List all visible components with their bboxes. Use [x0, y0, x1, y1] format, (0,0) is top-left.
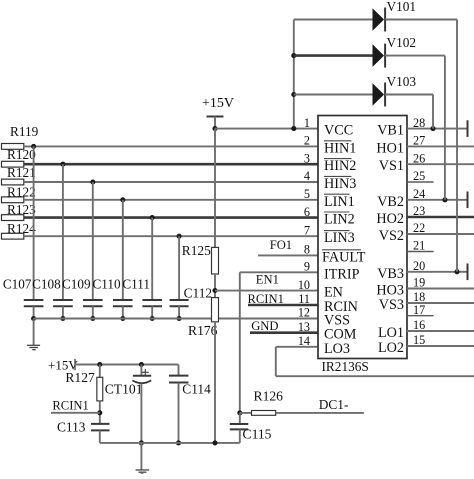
svg-text:6: 6	[304, 205, 310, 219]
wire COM pin 13 stub	[250, 331, 318, 334]
wire +15V rail	[75, 364, 179, 366]
svg-text:C108: C108	[32, 277, 61, 292]
wire +15V column to R125	[214, 129, 216, 248]
svg-text:R122: R122	[7, 184, 36, 199]
svg-text:R125: R125	[182, 243, 211, 258]
svg-text:11: 11	[298, 292, 310, 306]
pin number 8	[304, 243, 310, 257]
node pin 28 junction	[430, 126, 435, 131]
pin name LIN1	[324, 194, 355, 210]
pin name LIN2	[324, 212, 355, 228]
resistor R125	[182, 243, 219, 274]
pin number 3	[304, 151, 310, 165]
node R127 top junction	[97, 362, 102, 367]
pin number 12	[298, 306, 310, 320]
node V102 anode junction	[291, 53, 296, 58]
svg-text:R123: R123	[7, 202, 36, 217]
wire VCC diode bus	[291, 20, 296, 132]
wire drop to C107	[33, 146, 35, 300]
svg-text:5: 5	[304, 187, 310, 201]
svg-text:4: 4	[304, 169, 310, 183]
pin number 13	[298, 320, 310, 334]
pin number 26	[413, 151, 425, 165]
capacitor C111	[122, 277, 162, 307]
svg-text:C114: C114	[182, 382, 211, 397]
svg-text:17: 17	[413, 303, 425, 317]
svg-text:HO1: HO1	[376, 140, 404, 156]
pin name FAULT	[322, 249, 366, 265]
wire drop to C110	[122, 200, 124, 300]
node junction on input line at C108	[60, 162, 65, 167]
wire EN node to EN pin 10	[215, 290, 318, 292]
wire pin 28	[407, 128, 468, 130]
pin name ITRIP	[324, 266, 360, 282]
wire ITRIP to R126	[240, 412, 252, 414]
wire pin 24	[407, 199, 468, 201]
svg-text:FO1: FO1	[270, 238, 292, 252]
svg-text:FAULT: FAULT	[322, 249, 366, 265]
pin number 19	[413, 276, 425, 290]
wire C111 to bus	[150, 306, 155, 321]
wire pin 16	[407, 330, 474, 332]
node CT101 top junction	[139, 362, 144, 367]
capacitor C114	[169, 376, 211, 397]
pin number 24	[413, 187, 425, 201]
wire pin 23	[407, 216, 474, 219]
svg-text:R121: R121	[7, 165, 36, 180]
pin name LO1	[378, 325, 404, 341]
wire C109 to bus	[90, 306, 95, 321]
net label GND	[251, 319, 278, 333]
svg-text:C113: C113	[57, 419, 86, 434]
svg-text:C111: C111	[122, 277, 150, 292]
pin name HO2	[376, 211, 404, 227]
svg-text:V101: V101	[387, 0, 417, 14]
svg-text:+15V: +15V	[202, 96, 234, 111]
wire pin 15	[407, 345, 474, 347]
pin number 21	[413, 239, 425, 253]
svg-text:DC1-: DC1-	[319, 397, 349, 412]
diode V101	[294, 0, 457, 272]
svg-text:R119: R119	[10, 124, 39, 139]
wire drop to C109	[92, 182, 94, 300]
wire C108 to bus	[60, 306, 65, 321]
resistor R127	[65, 365, 102, 401]
wire R127 to RCIN1 node	[97, 401, 102, 424]
pin number 20	[413, 259, 425, 273]
resistor R120	[2, 147, 37, 167]
pin number 11	[298, 292, 310, 306]
wire FAULT pin 8 stub	[258, 254, 318, 256]
diode V103	[294, 74, 433, 129]
pin name LIN3	[324, 230, 355, 246]
wire R124 to pin 7	[24, 235, 318, 237]
wire pin 25 stub	[407, 181, 434, 183]
svg-text:C107: C107	[3, 277, 32, 292]
node junction on input line at C109	[90, 179, 95, 184]
wire pin 20	[407, 271, 468, 273]
pin number 5	[304, 187, 310, 201]
svg-text:9: 9	[304, 260, 310, 274]
svg-text:HO2: HO2	[376, 211, 404, 227]
svg-text:EN1: EN1	[256, 273, 279, 287]
pin name VS1	[379, 158, 404, 174]
capacitor C115	[230, 413, 272, 442]
wire +15V to VCC pin 1	[215, 128, 318, 130]
resistor R126	[252, 389, 284, 416]
wire ground bus to VSS pin 12	[34, 318, 318, 320]
svg-text:C112: C112	[184, 286, 213, 301]
net label RCIN1 (pin 11)	[248, 292, 284, 306]
pin name VS3	[379, 297, 404, 313]
pin number 4	[304, 169, 310, 183]
svg-text:LIN2: LIN2	[324, 212, 355, 228]
pin name VS2	[379, 228, 404, 244]
resistor R122	[2, 184, 36, 202]
wire bottom ground bus	[100, 440, 240, 445]
svg-text:R126: R126	[254, 389, 284, 404]
svg-text:10: 10	[298, 278, 310, 292]
pin number 14	[298, 334, 310, 348]
capacitor C112	[170, 286, 213, 307]
svg-text:HIN3: HIN3	[324, 176, 356, 192]
terminal pin 20	[467, 264, 469, 281]
wire rail corner to C114	[178, 365, 180, 376]
svg-text:8: 8	[304, 243, 310, 257]
pin name VSS	[324, 313, 350, 329]
wire pin 18	[407, 302, 474, 304]
capacitor CT101	[105, 365, 151, 397]
wire pin 26	[407, 163, 474, 165]
node V103 anode junction	[291, 92, 296, 97]
power +15V (top)	[202, 96, 234, 129]
wire drop to C108	[62, 164, 64, 300]
node junction on input line at C111	[150, 215, 155, 220]
svg-text:V103: V103	[387, 74, 417, 89]
wire drop to C111	[151, 218, 153, 300]
capacitor C107	[3, 277, 44, 307]
node ITRIP junction	[237, 410, 242, 415]
pin name VB1	[377, 123, 404, 139]
wire CT101 to bottom bus	[139, 384, 144, 446]
svg-text:V102: V102	[387, 35, 417, 50]
capacitor C109	[62, 277, 103, 307]
svg-text:LIN1: LIN1	[324, 194, 355, 210]
wire R123 to pin 6	[24, 216, 318, 219]
node pin 24 junction	[442, 197, 447, 202]
wire R125 to EN node	[214, 274, 216, 298]
svg-text:C115: C115	[243, 427, 272, 442]
pin number 15	[413, 333, 425, 347]
pin number 22	[413, 221, 425, 235]
pin number 7	[304, 223, 310, 237]
pin name HIN1	[324, 140, 356, 156]
pin number 27	[413, 134, 425, 148]
resistor R176	[188, 298, 219, 338]
svg-text:LO2: LO2	[378, 340, 404, 356]
wire R176 to bottom bus	[214, 322, 216, 443]
wire ITRIP column	[239, 272, 241, 413]
svg-text:C109: C109	[62, 277, 91, 292]
svg-text:R124: R124	[7, 221, 36, 236]
pin name HO1	[376, 140, 404, 156]
node junction on input line at C112	[177, 234, 182, 239]
wire RCIN pin 11 stub	[248, 304, 318, 307]
pin number 25	[413, 169, 425, 183]
svg-text:2: 2	[304, 134, 310, 148]
pin number 6	[304, 205, 310, 219]
svg-text:VB2: VB2	[377, 194, 404, 210]
ground (bus)	[27, 319, 40, 350]
capacitor C110	[93, 277, 133, 307]
svg-text:HIN2: HIN2	[324, 158, 356, 174]
wire C113 to bottom bus	[99, 430, 101, 443]
wire R119 to pin 2	[24, 145, 318, 147]
svg-text:GND: GND	[251, 319, 278, 333]
pin name VCC	[324, 123, 353, 139]
wire R122 to pin 5	[24, 199, 318, 201]
svg-text:25: 25	[413, 169, 425, 183]
svg-text:C110: C110	[93, 277, 121, 292]
svg-text:IR2136S: IR2136S	[322, 359, 369, 374]
op-amp U1 IR2136S body	[318, 116, 407, 359]
pin name HIN3	[324, 176, 356, 192]
svg-text:VB3: VB3	[377, 266, 404, 282]
pin name HO3	[376, 283, 404, 299]
ground (bottom)	[136, 443, 150, 474]
net label FO1	[270, 238, 292, 252]
wire drop to C112	[178, 236, 180, 300]
terminal pin 24	[467, 192, 469, 209]
svg-text:LIN3: LIN3	[324, 230, 355, 246]
wire pin 27	[407, 145, 474, 147]
wire C107 to bus	[31, 306, 36, 321]
capacitor C113	[57, 419, 110, 434]
svg-text:1: 1	[304, 116, 310, 130]
pin name VB2	[377, 194, 404, 210]
svg-text:VS2: VS2	[379, 228, 404, 244]
net label DC1-	[276, 397, 364, 413]
pin number 17	[413, 303, 425, 317]
svg-text:LO3: LO3	[324, 341, 350, 357]
resistor R124	[2, 221, 37, 239]
resistor R121	[2, 165, 36, 185]
wire R121 to pin 4	[24, 181, 318, 183]
pin number 10	[298, 278, 310, 292]
pin name COM	[324, 327, 357, 343]
node +15V junction	[212, 126, 217, 131]
svg-text:VS1: VS1	[379, 158, 404, 174]
wire pin 17 stub	[407, 315, 434, 317]
pin number 23	[413, 204, 425, 218]
resistor R123	[2, 202, 37, 220]
wire C110 to bus	[120, 306, 125, 321]
wire pin 21 stub	[407, 251, 434, 253]
diode V102	[294, 35, 445, 200]
svg-text:7: 7	[304, 223, 310, 237]
net label RCIN1 (lower)	[51, 398, 100, 412]
wire ITRIP pin 9	[240, 271, 318, 273]
svg-text:HIN1: HIN1	[324, 140, 356, 156]
capacitor C108	[32, 277, 73, 307]
svg-text:CT101: CT101	[105, 382, 143, 397]
terminal pin 28	[467, 120, 469, 137]
pin number 16	[413, 318, 425, 332]
svg-text:VS3: VS3	[379, 297, 404, 313]
wire pin 22	[407, 233, 474, 235]
node junction on input line at C110	[120, 197, 125, 202]
svg-text:R176: R176	[188, 323, 218, 338]
svg-text:21: 21	[413, 239, 425, 253]
wire C115 to bottom bus	[239, 429, 241, 443]
pin number 9	[304, 260, 310, 274]
pin number 18	[413, 290, 425, 304]
svg-text:ITRIP: ITRIP	[324, 266, 360, 282]
wire pin 19	[407, 288, 474, 290]
node EN junction	[212, 288, 217, 293]
pin number 28	[413, 116, 425, 130]
wire R120 to pin 3	[24, 163, 318, 166]
net label EN1	[256, 273, 279, 287]
pin name LO3	[324, 341, 350, 357]
svg-text:3: 3	[304, 151, 310, 165]
power +15V (lower)	[48, 357, 78, 372]
pin number 1	[304, 116, 310, 130]
svg-text:RCIN1: RCIN1	[52, 398, 88, 412]
pin name EN	[324, 285, 343, 301]
wire C114 to bottom bus	[176, 383, 181, 446]
wire C112 to bus	[177, 306, 182, 321]
label IR2136S	[322, 359, 369, 374]
node pin 20 junction	[454, 269, 459, 274]
svg-text:R127: R127	[65, 370, 95, 385]
pin name LO2	[378, 340, 404, 356]
resistor R119	[2, 124, 39, 149]
pin name VB3	[377, 266, 404, 282]
svg-text:LO1: LO1	[378, 325, 404, 341]
node junction on input line at C107	[31, 144, 36, 149]
svg-text:12: 12	[298, 306, 310, 320]
wire LO3 bottom run	[276, 375, 474, 377]
svg-text:VCC: VCC	[324, 123, 353, 139]
pin number 2	[304, 134, 310, 148]
wire LO3 pin 14	[276, 347, 318, 376]
pin name HIN2	[324, 158, 356, 174]
pin name RCIN	[324, 299, 358, 315]
svg-text:13: 13	[298, 320, 310, 334]
svg-text:14: 14	[298, 334, 310, 348]
svg-text:VB1: VB1	[377, 123, 404, 139]
svg-text:R120: R120	[7, 147, 36, 162]
